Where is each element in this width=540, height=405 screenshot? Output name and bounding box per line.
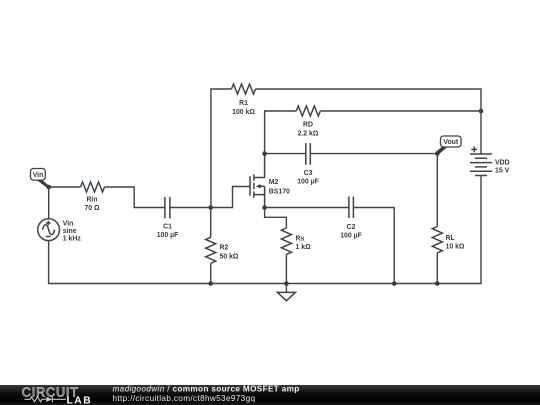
wire <box>211 187 250 208</box>
node A (Vin node) <box>46 185 51 190</box>
logo diode <box>46 397 52 402</box>
svg-text:C1: C1 <box>163 223 172 230</box>
svg-text:C2: C2 <box>347 224 356 231</box>
wire <box>48 187 50 219</box>
svg-text:Rs: Rs <box>296 235 305 242</box>
wire <box>436 253 438 284</box>
svg-text:sine: sine <box>63 228 77 235</box>
wire <box>49 186 81 188</box>
wire <box>265 208 287 229</box>
wire <box>170 207 211 209</box>
svg-text:LAB: LAB <box>67 396 93 405</box>
wire <box>285 255 287 284</box>
wire <box>320 110 481 112</box>
svg-text:100 µF: 100 µF <box>340 233 362 240</box>
wire <box>480 111 482 154</box>
capacitor C2 <box>340 197 362 240</box>
resistor R1 <box>232 84 256 116</box>
wire <box>105 187 165 208</box>
ground <box>277 284 295 301</box>
wire <box>265 207 349 209</box>
svg-text:Vin: Vin <box>33 172 44 179</box>
svg-text:1 kΩ: 1 kΩ <box>296 244 312 251</box>
svg-text:madigoodwin / common source MO: madigoodwin / common source MOSFET amp <box>113 385 300 394</box>
transistor M2 <box>250 154 290 208</box>
wire <box>211 89 232 208</box>
node I (R2 bottom) <box>208 281 213 286</box>
svg-text:RL: RL <box>446 235 455 242</box>
wire <box>210 208 212 238</box>
battery VDD <box>470 147 510 176</box>
logo squiggle <box>25 397 67 403</box>
capacitor C3 <box>297 143 319 186</box>
resistor RL <box>432 227 465 253</box>
wire <box>353 208 394 284</box>
svg-text:2.2 kΩ: 2.2 kΩ <box>298 130 319 137</box>
footer bar <box>0 385 540 405</box>
svg-text:R2: R2 <box>220 245 229 252</box>
svg-text:10 kΩ: 10 kΩ <box>446 244 465 251</box>
resistor Rs <box>281 228 311 254</box>
svg-text:100 µF: 100 µF <box>297 179 319 186</box>
svg-text:M2: M2 <box>269 179 279 186</box>
wire <box>265 111 297 154</box>
wire <box>436 154 438 227</box>
wire <box>256 89 482 111</box>
source Vin (sine) <box>38 219 82 243</box>
node C (drain node) <box>262 151 267 156</box>
node label Vin <box>31 169 50 189</box>
wire <box>48 241 50 284</box>
svg-text:R1: R1 <box>239 100 248 107</box>
svg-text:15 V: 15 V <box>495 167 510 174</box>
svg-text:Vout: Vout <box>443 139 459 146</box>
svg-text:C3: C3 <box>304 170 313 177</box>
capacitor C1 <box>157 197 179 239</box>
node E (rail junction) <box>479 109 484 114</box>
node H <box>284 281 289 286</box>
svg-text:50 kΩ: 50 kΩ <box>220 254 239 261</box>
svg-text:RD: RD <box>303 122 313 129</box>
svg-text:70 Ω: 70 Ω <box>84 205 100 212</box>
resistor RD <box>296 106 320 137</box>
wire <box>48 176 481 284</box>
resistor R2 <box>206 237 239 263</box>
node F (Vout node) <box>435 151 440 156</box>
node B (gate junction) <box>208 205 213 210</box>
wire <box>310 153 437 155</box>
resistor Rin <box>81 182 105 212</box>
svg-text:100 µF: 100 µF <box>157 232 179 239</box>
node label Vout <box>436 136 461 155</box>
svg-text:1 kHz: 1 kHz <box>63 236 82 243</box>
node J (RL bottom) <box>435 281 440 286</box>
svg-text:BS170: BS170 <box>269 189 290 196</box>
wire <box>265 153 306 155</box>
wire <box>210 263 212 283</box>
svg-text:http://circuitlab.com/ct8hw53e: http://circuitlab.com/ct8hw53e973gq <box>113 394 256 403</box>
svg-text:100 kΩ: 100 kΩ <box>232 109 255 116</box>
svg-text:Vin: Vin <box>63 220 74 227</box>
node D (source node) <box>262 205 267 210</box>
svg-text:Rin: Rin <box>86 196 97 203</box>
svg-text:VDD: VDD <box>495 159 510 166</box>
node G <box>392 281 397 286</box>
